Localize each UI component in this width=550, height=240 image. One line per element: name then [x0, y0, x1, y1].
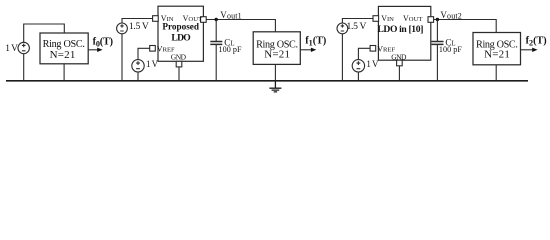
wire V2 bottom to ground rail [121, 34, 123, 81]
ground rail net GND [6, 80, 528, 82]
svg-text:1 V: 1 V [5, 44, 18, 54]
wire V3 top to VREF pin [138, 48, 150, 59]
svg-text:f2(T): f2(T) [526, 36, 547, 48]
svg-text:N=21: N=21 [484, 48, 510, 60]
pin VREF U4 [370, 46, 376, 52]
capacitor C1 wires [215, 20, 217, 81]
svg-text:GND: GND [171, 52, 187, 61]
capacitor C2 plates [432, 42, 444, 45]
svg-text:1.5 V: 1.5 V [347, 21, 367, 32]
wire GND U2 to rail [178, 67, 180, 81]
pin VREF U2 [150, 46, 156, 52]
svg-text:100 pF: 100 pF [219, 45, 242, 54]
wire V5 top to VREF pin of U4 [358, 48, 370, 59]
svg-text:Vout1: Vout1 [220, 10, 241, 21]
pin VIN U4 [373, 16, 379, 22]
capacitor C2 wires [436, 20, 438, 81]
voltage source V3 1 V [132, 60, 144, 72]
node f1 output arrow [301, 49, 312, 51]
svg-text:VOUT: VOUT [403, 14, 423, 23]
op-amp U2 Proposed LDO box [158, 6, 203, 61]
voltage source V4 1.5 V [337, 23, 348, 34]
wire OSC2 bottom stub to rail [274, 64, 276, 80]
voltage source V1 1 V [18, 42, 29, 53]
ring oscillator U1 box [40, 33, 88, 64]
svg-text:Vout2: Vout2 [440, 10, 461, 21]
svg-text:1.5 V: 1.5 V [129, 21, 149, 32]
svg-text:f0(T): f0(T) [93, 36, 113, 48]
svg-text:100 pF: 100 pF [439, 45, 462, 54]
voltage source V2 1.5 V [117, 23, 128, 34]
wire V5 bottom to ground rail [357, 72, 359, 81]
wire V2 top to VIN pin [122, 19, 153, 24]
svg-text:f1(T): f1(T) [305, 36, 326, 48]
svg-text:N=21: N=21 [50, 49, 76, 61]
wire V3 bottom to ground rail [137, 72, 139, 81]
svg-text:1 V: 1 V [366, 59, 379, 69]
ground symbol [269, 81, 281, 92]
pin VOUT U4 [428, 17, 434, 23]
svg-text:GND: GND [391, 52, 407, 61]
wire GND U4 to rail [398, 66, 400, 81]
wire V4 bottom to ground rail [341, 34, 343, 81]
wire OSC3 bottom stub to rail [495, 65, 497, 81]
voltage source V5 1 V [352, 60, 364, 72]
svg-text:Proposed: Proposed [162, 22, 199, 32]
wire node Vout2 [434, 20, 497, 33]
wire V4 top to VIN pin of U4 [342, 19, 373, 24]
pin VIN U2 [153, 16, 159, 22]
svg-text:1 V: 1 V [146, 59, 159, 69]
capacitor C1 plates [210, 42, 222, 45]
wire V1 top to OSC1 [24, 24, 65, 42]
junction Vout1 [215, 18, 218, 21]
op-amp U4 LDO in [10] box [378, 6, 430, 60]
wire V1 bottom to ground rail [23, 54, 25, 81]
wire node Vout1 [206, 20, 275, 32]
ring oscillator U5 box [473, 33, 521, 65]
svg-text:LDO in [10]: LDO in [10] [377, 24, 423, 35]
ring oscillator U3 box [253, 32, 300, 65]
pin GND U2 [176, 61, 182, 67]
wire OSC1 bottom stub [63, 64, 65, 81]
svg-text:LDO: LDO [171, 33, 190, 44]
svg-text:N=21: N=21 [264, 48, 290, 60]
pin VOUT U2 [201, 17, 207, 23]
pin GND U4 [397, 60, 403, 66]
svg-text:VIN: VIN [381, 14, 394, 23]
junction Vout2 [436, 18, 439, 21]
node f2 output arrow [521, 49, 533, 51]
node f0 output arrow [88, 49, 97, 51]
